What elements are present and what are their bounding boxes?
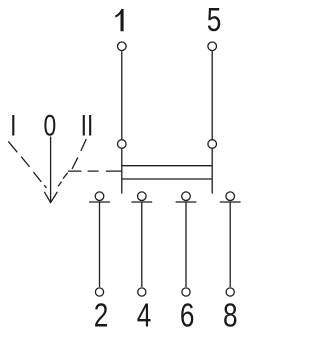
svg-text:8: 8 [223, 298, 238, 335]
svg-text:I: I [10, 109, 16, 142]
svg-text:4: 4 [137, 298, 152, 335]
svg-text:2: 2 [94, 298, 109, 335]
svg-text:6: 6 [180, 298, 195, 335]
svg-text:II: II [81, 109, 94, 142]
svg-text:0: 0 [44, 109, 57, 142]
svg-text:5: 5 [207, 2, 222, 39]
